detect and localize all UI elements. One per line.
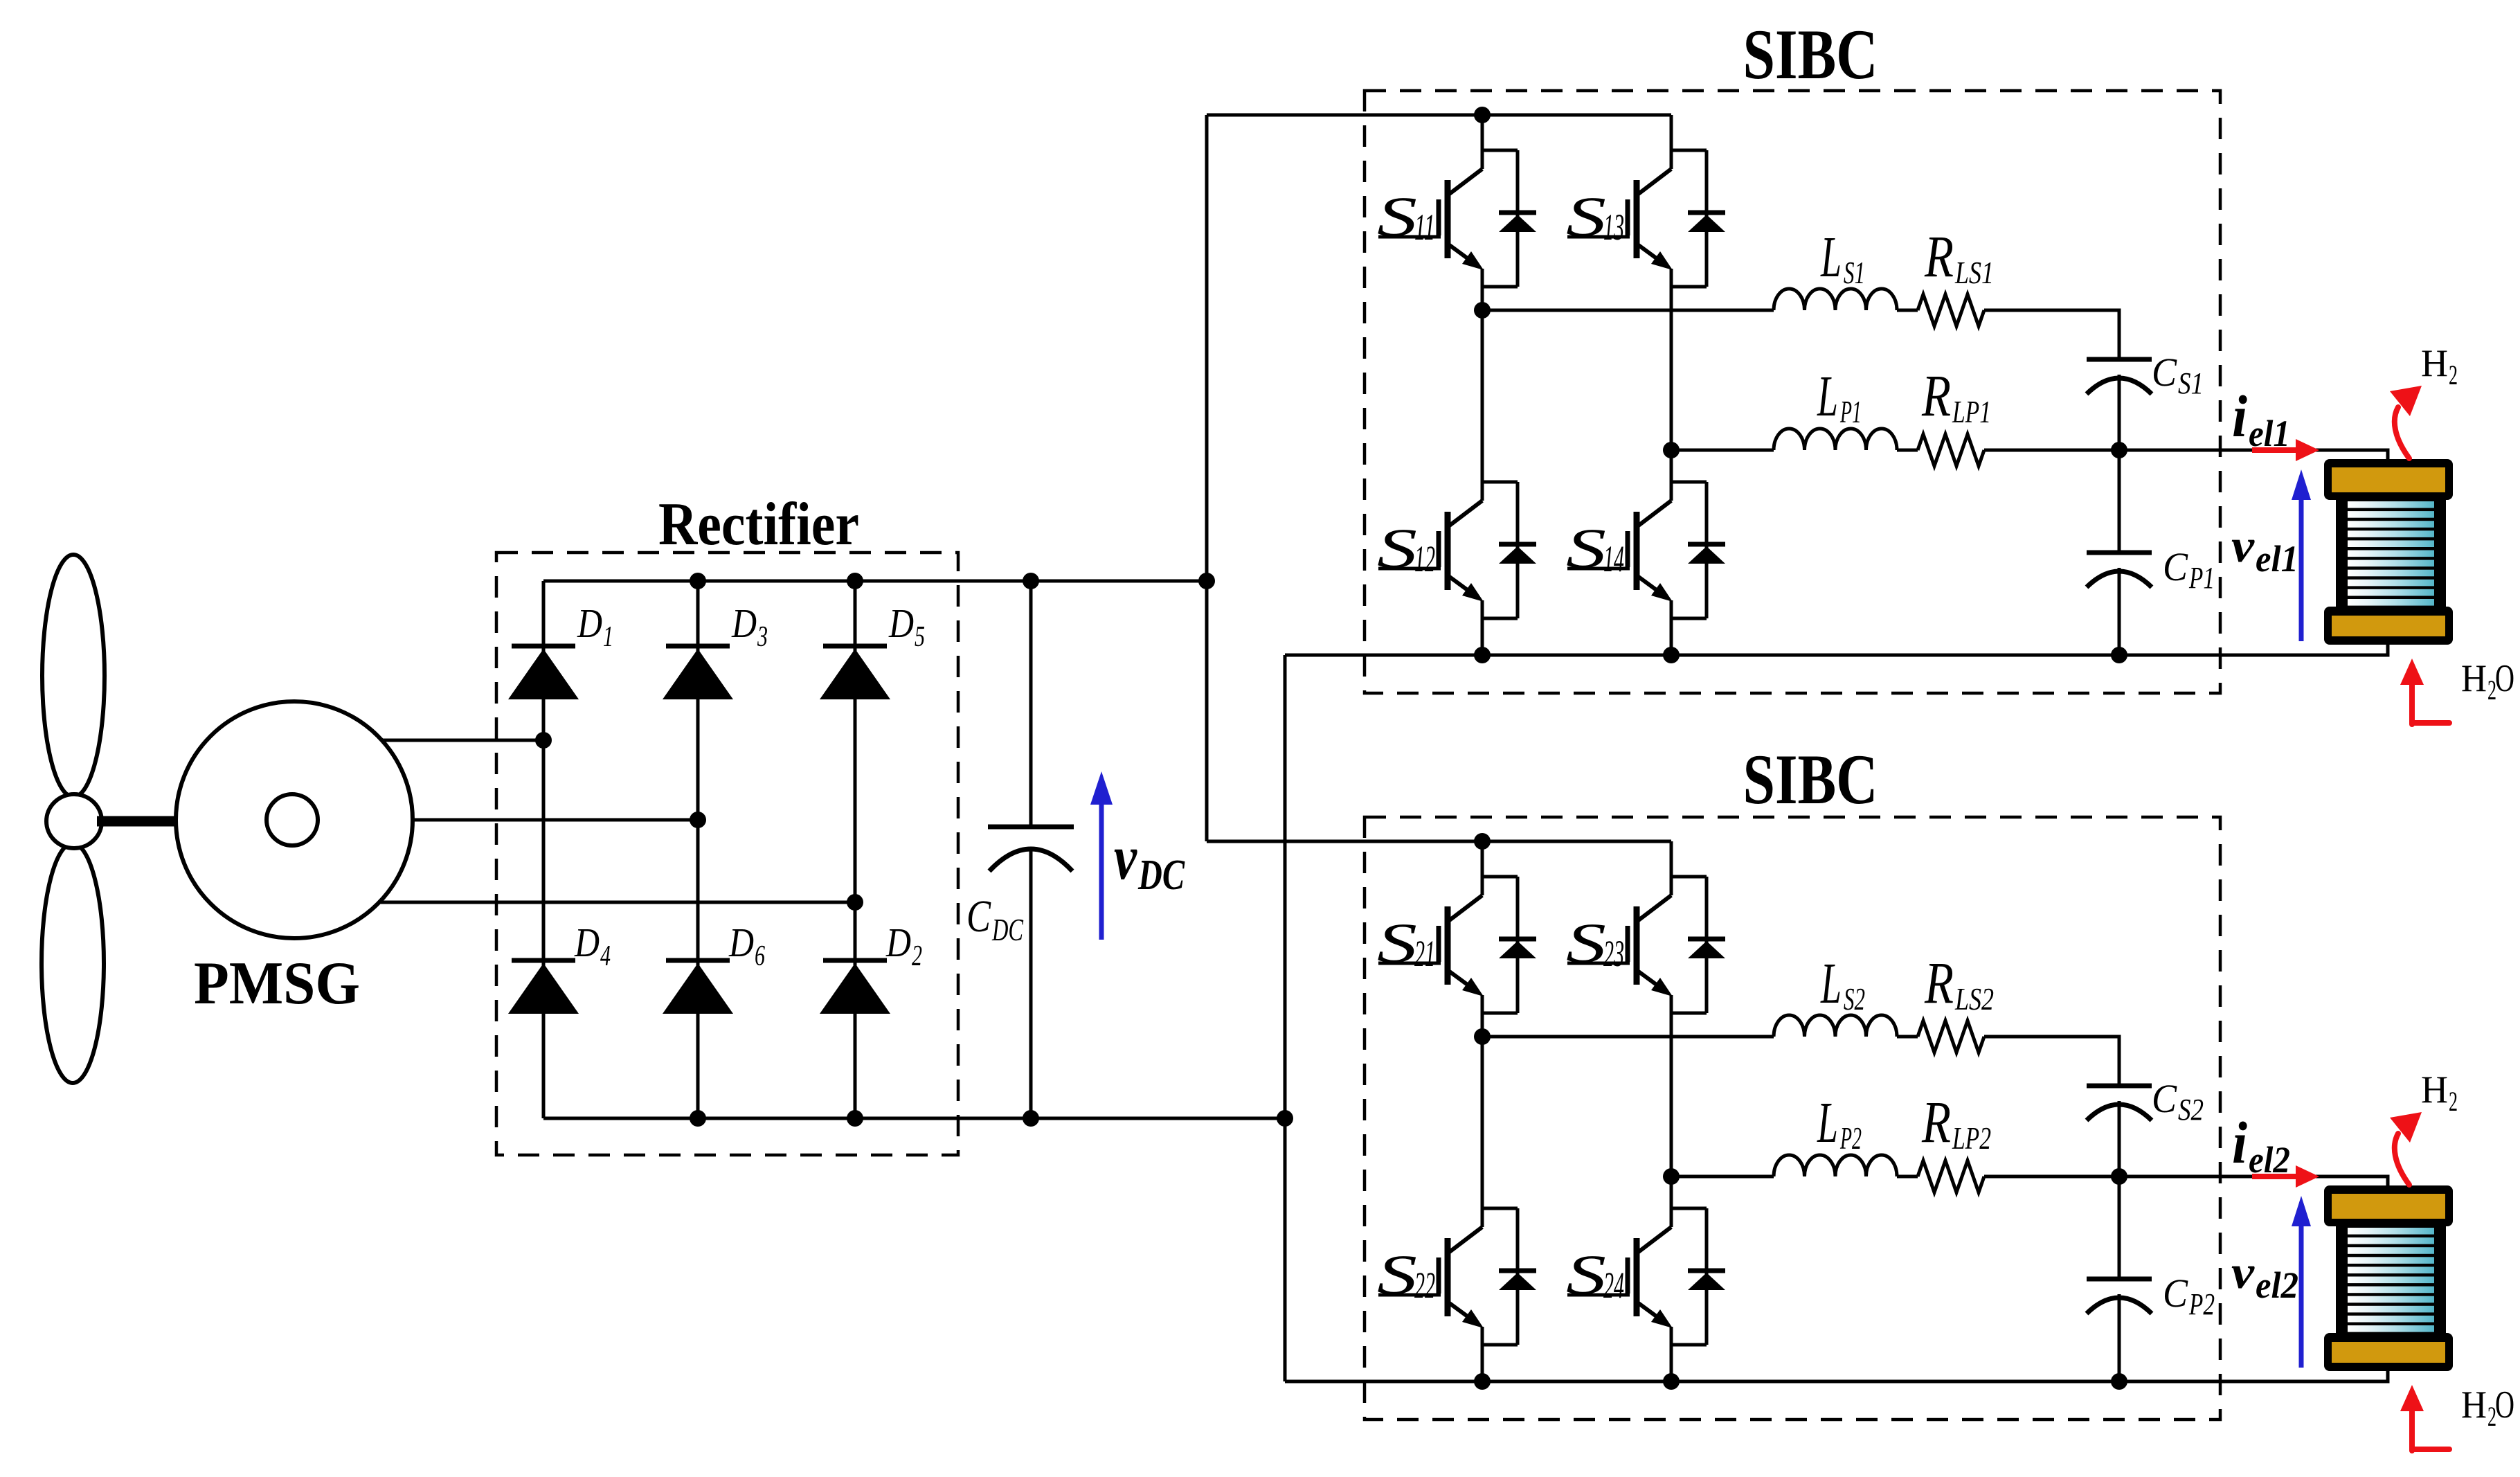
svg-text:LS2: LS2: [1954, 981, 1994, 1017]
svg-text:S: S: [1377, 185, 1417, 248]
svg-text:SIBC: SIBC: [1743, 740, 1878, 819]
svg-text:H: H: [2421, 342, 2448, 385]
svg-text:D: D: [728, 920, 754, 965]
svg-text:1: 1: [603, 621, 613, 653]
svg-text:H: H: [2461, 657, 2487, 700]
svg-text:C: C: [2152, 350, 2177, 395]
svg-text:H: H: [2461, 1384, 2487, 1426]
svg-text:2: 2: [912, 940, 922, 972]
svg-text:5: 5: [915, 621, 925, 653]
svg-text:S: S: [1566, 1243, 1606, 1306]
svg-text:S2: S2: [2178, 1093, 2204, 1127]
svg-text:R: R: [1924, 223, 1954, 289]
svg-text:C: C: [2152, 1076, 2177, 1121]
svg-text:el2: el2: [2249, 1139, 2290, 1181]
svg-text:i: i: [2232, 1109, 2247, 1176]
svg-text:S: S: [1377, 1243, 1417, 1306]
svg-text:11: 11: [1414, 206, 1435, 248]
svg-text:R: R: [1921, 1089, 1951, 1155]
svg-text:D: D: [885, 920, 911, 965]
svg-text:R: R: [1924, 949, 1954, 1016]
svg-text:S: S: [1566, 185, 1606, 248]
svg-text:D: D: [577, 600, 602, 646]
svg-text:el1: el1: [2249, 413, 2290, 454]
svg-text:P1: P1: [2188, 561, 2215, 595]
svg-text:4: 4: [600, 940, 611, 972]
svg-text:Rectifier: Rectifier: [658, 491, 859, 558]
svg-text:2: 2: [2449, 359, 2458, 391]
svg-text:L: L: [1820, 951, 1842, 1016]
svg-text:6: 6: [755, 940, 765, 972]
svg-text:D: D: [888, 600, 914, 646]
svg-text:O: O: [2495, 1384, 2514, 1426]
svg-text:L: L: [1817, 364, 1838, 429]
svg-text:23: 23: [1603, 933, 1624, 974]
svg-text:SIBC: SIBC: [1743, 15, 1878, 94]
svg-text:v: v: [1114, 822, 1137, 893]
svg-text:v: v: [2231, 1246, 2255, 1298]
svg-text:C: C: [2163, 1271, 2188, 1316]
svg-text:C: C: [2163, 544, 2188, 589]
svg-text:DC: DC: [991, 912, 1024, 947]
svg-text:14: 14: [1603, 538, 1624, 580]
svg-text:v: v: [2231, 519, 2255, 572]
svg-text:R: R: [1921, 362, 1951, 429]
svg-text:S2: S2: [1844, 981, 1865, 1017]
svg-text:i: i: [2232, 383, 2247, 449]
svg-text:L: L: [1817, 1091, 1838, 1155]
svg-text:P2: P2: [2188, 1287, 2215, 1321]
svg-text:el2: el2: [2256, 1264, 2298, 1306]
svg-text:13: 13: [1603, 206, 1624, 248]
svg-text:2: 2: [2449, 1086, 2458, 1117]
svg-text:C: C: [966, 891, 991, 942]
svg-text:L: L: [1820, 225, 1842, 289]
svg-text:3: 3: [757, 621, 768, 653]
svg-text:24: 24: [1603, 1264, 1624, 1306]
svg-text:S: S: [1566, 911, 1606, 974]
svg-text:12: 12: [1414, 538, 1435, 580]
svg-text:22: 22: [1414, 1264, 1435, 1306]
svg-text:el1: el1: [2256, 538, 2298, 580]
svg-text:O: O: [2495, 657, 2514, 700]
svg-text:P2: P2: [1839, 1120, 1862, 1156]
svg-text:DC: DC: [1137, 852, 1185, 899]
svg-text:LP2: LP2: [1952, 1120, 1991, 1156]
svg-text:S: S: [1566, 517, 1606, 580]
svg-text:LS1: LS1: [1954, 255, 1994, 290]
svg-text:H: H: [2421, 1068, 2448, 1111]
svg-text:S1: S1: [1844, 255, 1865, 290]
svg-text:S: S: [1377, 911, 1417, 974]
svg-text:D: D: [574, 920, 600, 965]
svg-text:S1: S1: [2178, 366, 2204, 400]
svg-text:PMSG: PMSG: [194, 950, 360, 1017]
svg-text:LP1: LP1: [1952, 394, 1991, 429]
svg-text:21: 21: [1414, 933, 1435, 974]
svg-text:D: D: [731, 600, 757, 646]
svg-text:P1: P1: [1839, 394, 1862, 429]
svg-text:S: S: [1377, 517, 1417, 580]
